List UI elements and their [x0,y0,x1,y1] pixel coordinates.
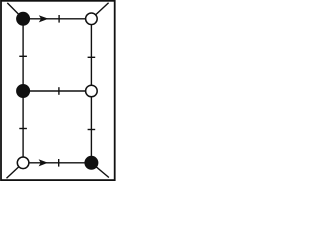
wire bottom edge E-F [23,162,91,164]
wire right column B-D-F [90,19,92,163]
arrowhead on top edge pointing right [39,15,49,22]
node D open circle (middle-right) [86,85,98,97]
wire middle edge C-D [23,90,91,92]
wire top edge A-B [23,18,91,20]
tick on middle edge [58,87,60,95]
node B open circle (top-right) [86,13,98,25]
tick on left column upper segment [19,55,27,57]
tick on top edge [58,15,60,23]
wire diagonal stub at node E (bottom-left) [7,163,24,179]
node C filled circle (middle-left) [17,85,30,98]
node A filled circle (top-left) [17,12,30,25]
wire diagonal stub at node F (bottom-right) [91,163,109,178]
wire diagonal stub at node A (top-left) [7,3,23,19]
wire left column A-C-E [22,19,24,163]
tick on right column upper segment [88,56,96,58]
tick on bottom edge [58,159,60,167]
tick on left column lower segment [19,128,27,130]
node E open circle (bottom-left) [17,157,29,169]
arrowhead on bottom edge pointing right [39,159,48,166]
tick on right column lower segment [88,129,96,131]
wire diagonal stub at node B (top-right) [91,3,108,19]
node F filled circle (bottom-right) [85,156,98,169]
